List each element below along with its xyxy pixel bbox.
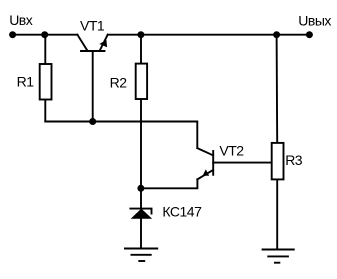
wire zener bottom lead	[140, 219, 142, 249]
wire node line (VT1 base net)	[45, 122, 197, 149]
wire R3 bottom lead	[276, 179, 278, 249]
svg-text:R1: R1	[17, 74, 35, 90]
node junction VT1 base / node line	[89, 118, 96, 125]
node junction R2/top rail	[137, 31, 144, 38]
ground right	[262, 250, 295, 263]
wire top rail right segment to output terminal	[277, 34, 310, 36]
wire R2 bottom lead	[140, 99, 142, 188]
wire R1 bottom lead	[44, 100, 46, 122]
node junction R1/top rail	[41, 31, 48, 38]
svg-text:VT1: VT1	[80, 18, 105, 34]
resistor R1	[40, 64, 52, 100]
resistor R3	[272, 143, 284, 180]
svg-text:R2: R2	[110, 75, 128, 91]
node junction R3/top rail	[273, 31, 280, 38]
wire top rail left segment	[13, 34, 78, 36]
svg-text:VT2: VT2	[219, 142, 244, 158]
wire VT2 emitter to zener node	[141, 179, 198, 188]
wire zener top lead	[140, 188, 142, 208]
svg-text:Uвх: Uвх	[9, 12, 33, 28]
wire VT1 base lead	[92, 51, 94, 122]
svg-text:КС147: КС147	[162, 204, 202, 220]
svg-text:R3: R3	[285, 152, 303, 168]
wire R1 top lead	[44, 35, 46, 64]
ground left	[124, 249, 158, 262]
resistor R2	[136, 64, 147, 99]
wire R2 top lead	[140, 35, 142, 64]
wire VT2 base lead to R3 tap	[213, 162, 272, 164]
node input terminal dot	[9, 31, 16, 38]
node output terminal dot	[306, 31, 313, 38]
wire top rail middle segment	[108, 34, 277, 36]
transistor VT2	[197, 148, 213, 179]
zener diode KC147	[130, 209, 151, 214]
transistor VT1	[77, 35, 107, 51]
wire R3 top lead	[276, 35, 279, 143]
svg-text:Uвых: Uвых	[298, 13, 331, 29]
node junction zener / VT2 emitter / R2	[137, 185, 144, 192]
